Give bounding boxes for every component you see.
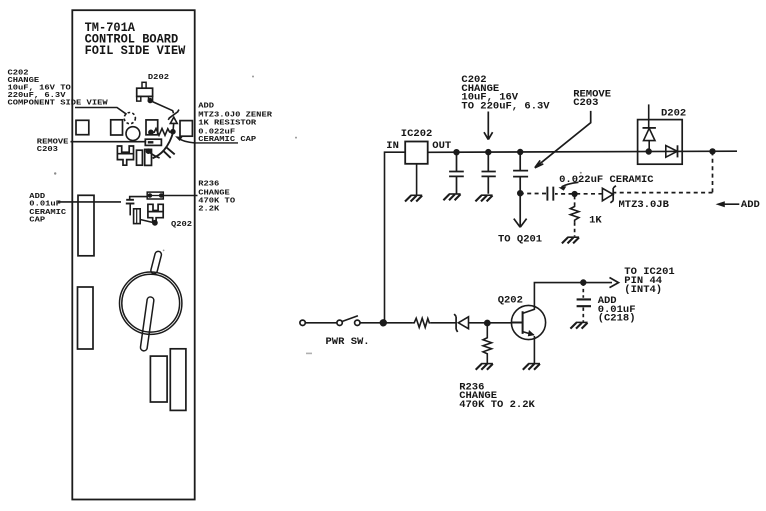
svg-text:ADD: ADD <box>741 199 760 211</box>
svg-text:0.022uF CERAMIC: 0.022uF CERAMIC <box>559 174 654 186</box>
svg-text:0.01uF: 0.01uF <box>29 200 61 208</box>
svg-text:0.022uF: 0.022uF <box>198 128 235 136</box>
svg-text:(C218): (C218) <box>598 313 636 325</box>
svg-text:CHANGE: CHANGE <box>198 189 230 197</box>
svg-text:IN: IN <box>386 140 399 152</box>
svg-text:C203: C203 <box>37 146 58 154</box>
svg-text:ADD: ADD <box>29 193 45 201</box>
svg-text:IC202: IC202 <box>401 128 433 140</box>
svg-text:OUT: OUT <box>432 140 451 152</box>
svg-text:Q202: Q202 <box>171 221 192 229</box>
svg-text:470K TO 2.2K: 470K TO 2.2K <box>459 399 535 411</box>
svg-text:(INT4): (INT4) <box>624 284 662 296</box>
svg-text:MTZ3.0JB: MTZ3.0JB <box>619 199 670 211</box>
svg-text:COMPONENT SIDE VIEW: COMPONENT SIDE VIEW <box>8 99 108 107</box>
svg-text:MTZ3.0J0 ZENER: MTZ3.0J0 ZENER <box>198 111 272 119</box>
svg-text:C202: C202 <box>8 69 29 77</box>
svg-text:470K TO: 470K TO <box>198 197 235 205</box>
svg-text:PWR SW.: PWR SW. <box>326 336 370 348</box>
svg-text:D202: D202 <box>148 74 169 82</box>
svg-text:ADD: ADD <box>198 102 214 110</box>
svg-text:TO 220uF, 6.3V: TO 220uF, 6.3V <box>461 100 550 112</box>
svg-text:TO Q201: TO Q201 <box>498 233 542 245</box>
svg-text:C203: C203 <box>573 97 598 109</box>
svg-text:2.2K: 2.2K <box>198 205 219 213</box>
svg-text:REMOVE: REMOVE <box>37 138 69 146</box>
svg-text:1K RESISTOR: 1K RESISTOR <box>198 119 256 127</box>
svg-text:FOIL SIDE VIEW: FOIL SIDE VIEW <box>85 44 186 59</box>
svg-text:Q202: Q202 <box>498 295 523 307</box>
svg-text:CAP: CAP <box>29 216 45 224</box>
svg-text:R236: R236 <box>198 180 219 188</box>
svg-text:D202: D202 <box>661 108 686 120</box>
svg-text:1K: 1K <box>589 215 602 227</box>
